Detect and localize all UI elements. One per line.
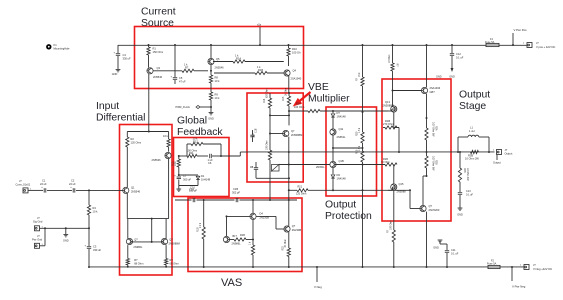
svg-text:10 Ohm 2W: 10 Ohm 2W <box>466 168 468 181</box>
resistor R22 47 Ohm <box>287 248 290 257</box>
resistor R15b 15k <box>361 77 364 86</box>
svg-text:330 uF: 330 uF <box>93 248 101 252</box>
svg-text:Output: Output <box>325 200 356 211</box>
resistor R19 <box>362 148 364 151</box>
resistor R24 10 Ohm <box>392 44 394 46</box>
svg-text:2N230B: 2N230B <box>292 228 302 232</box>
svg-text:C6: C6 <box>208 161 212 165</box>
svg-text:Q13: Q13 <box>385 100 390 104</box>
connector J input <box>23 188 28 193</box>
svg-text:R1B: R1B <box>258 68 263 72</box>
svg-text:22 uF: 22 uF <box>40 182 47 186</box>
svg-text:Conn_01x01: Conn_01x01 <box>16 182 31 186</box>
svg-text:2.2 k: 2.2 k <box>200 222 202 228</box>
svg-text:Multiplier: Multiplier <box>308 94 350 105</box>
resistor R23 1k <box>251 245 254 255</box>
wire d4 emitter <box>252 240 254 246</box>
wire input line <box>28 189 43 191</box>
svg-text:C3: C3 <box>93 245 97 249</box>
svg-text:D9: D9 <box>337 173 341 177</box>
transistor Q4 2SA <box>284 70 290 76</box>
transistor Q14 2SA1943 <box>421 87 427 93</box>
transistor Q6 2N5088M <box>161 238 167 244</box>
svg-text:V Pwr Pos: V Pwr Pos <box>514 28 528 32</box>
svg-text:2SC5200: 2SC5200 <box>429 208 440 212</box>
wire q11 node link <box>333 147 363 149</box>
svg-text:10 k: 10 k <box>215 79 221 83</box>
wire Q2-Q6 base link <box>131 241 164 243</box>
wire Q6 collector <box>165 219 167 239</box>
transistor Q13 2N5088M driver <box>391 106 397 112</box>
svg-text:C5: C5 <box>179 76 183 80</box>
resistor R1B 1k <box>255 71 267 74</box>
svg-text:C1A: C1A <box>189 188 194 192</box>
svg-text:C11: C11 <box>451 248 456 252</box>
transistor Q11 2N651L <box>330 129 336 135</box>
capacitor C11 0.1uF with ground <box>446 266 448 268</box>
svg-text:R13: R13 <box>172 161 175 166</box>
svg-text:R2: R2 <box>131 137 135 141</box>
capacitor C12 0.1uF with earth <box>451 44 453 46</box>
connector J pwr gnd 1 <box>35 226 40 231</box>
logo K1 MountingHole <box>46 44 51 49</box>
svg-text:150 Ohm: 150 Ohm <box>153 50 164 54</box>
svg-text:Output: Output <box>493 161 501 165</box>
resistor R12 10k feedback top <box>186 144 188 156</box>
svg-text:R1B: R1B <box>240 234 245 237</box>
svg-text:Input: Input <box>96 101 119 112</box>
resistor R10 100 Ohm <box>288 44 290 46</box>
svg-text:GND: GND <box>63 240 69 243</box>
wire q11 emitter <box>332 135 334 161</box>
svg-text:GB?: GB? <box>430 90 436 94</box>
svg-text:10 k: 10 k <box>163 134 169 138</box>
svg-text:VBE: VBE <box>308 82 329 93</box>
svg-text:Output: Output <box>459 90 490 101</box>
svg-text:2N651L: 2N651L <box>316 166 325 169</box>
resistor RV2 1k <box>288 92 290 94</box>
svg-text:GND: GND <box>208 118 214 121</box>
diode D7 1N4148 <box>332 110 334 112</box>
capacitor C10 150pF <box>192 198 194 202</box>
svg-text:Q1: Q1 <box>131 186 135 190</box>
wire feedback out <box>222 155 241 157</box>
resistor R25 100 Ohm <box>392 230 395 242</box>
wire rail drop x362 <box>362 44 364 46</box>
svg-text:V Pwr Neg: V Pwr Neg <box>512 285 526 289</box>
svg-text:Sig Gnd: Sig Gnd <box>33 220 43 224</box>
ground feedback <box>178 186 180 189</box>
svg-text:68 Ohm: 68 Ohm <box>134 262 143 266</box>
wire Q2 collector <box>127 219 129 239</box>
svg-text:D4: D4 <box>260 212 264 216</box>
svg-text:R12: R12 <box>193 140 198 144</box>
capacitor C2 22uF <box>72 188 74 192</box>
wire Q5 base row <box>213 61 233 63</box>
svg-text:1.5 k: 1.5 k <box>359 127 361 133</box>
svg-text:100 Oh: 100 Oh <box>292 51 301 55</box>
svg-text:C1B: C1B <box>233 187 238 191</box>
svg-text:2N986L: 2N986L <box>133 245 143 249</box>
svg-text:R15: R15 <box>283 96 285 101</box>
wire vbe base col <box>269 115 271 133</box>
wire vas base row <box>227 215 250 217</box>
svg-text:R14: R14 <box>264 98 266 103</box>
svg-text:R22: R22 <box>283 246 285 251</box>
svg-text:R9: R9 <box>215 93 219 97</box>
wire shunt bottom link <box>179 185 198 187</box>
transistor Q1 2N5546 input <box>123 187 129 193</box>
svg-text:R21: R21 <box>298 186 303 189</box>
wire q14 emitter <box>426 94 428 128</box>
wire q14 base stub <box>393 90 422 92</box>
svg-text:120 Ohm: 120 Ohm <box>296 193 306 196</box>
wire Q5 collector <box>210 44 212 46</box>
capacitor C3 330uF <box>88 228 90 246</box>
svg-text:2N5546: 2N5546 <box>152 158 162 162</box>
resistor R1B 2.2k vas load <box>203 200 205 227</box>
svg-text:70 Ohm: 70 Ohm <box>381 161 390 164</box>
node shunt bottom <box>178 174 180 176</box>
transistor Q2 2N986L <box>126 238 132 244</box>
svg-text:R?: R? <box>134 258 138 262</box>
capacitor C1B 302pF <box>235 198 237 202</box>
svg-text:GND: GND <box>436 76 442 79</box>
wire Q5 emitter to R8 <box>210 65 212 75</box>
node input junction <box>88 189 90 191</box>
wire q8 collector up <box>226 216 228 236</box>
node V Pwr Pos <box>512 33 514 45</box>
svg-text:R1: R1 <box>153 47 157 51</box>
svg-text:GND: GND <box>449 76 455 79</box>
net stub V2a on current source box top <box>259 27 261 45</box>
resistor R5 68 Ohm <box>127 245 129 258</box>
transistor Q cascode 2N5546 <box>165 152 171 158</box>
svg-text:R7: R7 <box>185 66 189 70</box>
capacitor C9 <box>254 167 258 169</box>
resistor R8 10k <box>209 75 212 83</box>
svg-text:2N5546: 2N5546 <box>215 66 225 70</box>
svg-text:302 pF: 302 pF <box>232 191 240 195</box>
resistor R7 1k <box>182 69 194 72</box>
capacitor C1 22uF <box>43 188 45 192</box>
svg-text:D?: D? <box>337 111 341 115</box>
svg-text:R2A: R2A <box>435 126 438 131</box>
svg-text:C1B: C1B <box>256 128 258 133</box>
svg-text:R11: R11 <box>189 151 194 155</box>
fuse F2 <box>488 265 500 268</box>
svg-text:270 Ohm: 270 Ohm <box>383 122 394 126</box>
svg-text:1 uH: 1 uH <box>469 129 475 133</box>
resistor R21 120 Ohm <box>297 189 308 192</box>
wire Q4 base row <box>214 72 255 74</box>
svg-text:47 Ohm: 47 Ohm <box>285 239 287 247</box>
svg-text:Q5: Q5 <box>216 57 220 61</box>
svg-text:10 k: 10 k <box>215 96 221 100</box>
svg-text:2N5088M: 2N5088M <box>383 104 394 108</box>
svg-text:Fuse 5A: Fuse 5A <box>485 41 495 44</box>
transistor Q15 driver <box>391 184 397 190</box>
svg-text:0.1 uF: 0.1 uF <box>456 56 464 60</box>
svg-text:Fuse 5A: Fuse 5A <box>487 263 497 266</box>
transistor Q3 2N5546 <box>147 68 153 74</box>
connector J output <box>497 150 502 155</box>
svg-text:330 uF: 330 uF <box>123 57 131 61</box>
wire top V+ rail <box>118 44 486 46</box>
ground under current source <box>210 107 212 112</box>
wire vbe link <box>270 114 289 116</box>
zobel branch <box>459 151 461 153</box>
svg-text:Global: Global <box>177 116 207 127</box>
svg-text:2N5088M: 2N5088M <box>291 133 302 137</box>
annotation box: Global Feedback <box>174 138 230 197</box>
svg-text:GND: GND <box>433 247 439 250</box>
svg-text:10 Ohm 2W: 10 Ohm 2W <box>465 157 479 161</box>
wire base drive row <box>289 110 308 112</box>
resistor RV 620 Ohm <box>269 93 271 98</box>
svg-text:2N5088M: 2N5088M <box>169 242 180 246</box>
node output junction <box>426 151 428 153</box>
svg-text:1N4148: 1N4148 <box>201 178 211 182</box>
svg-text:C4: C4 <box>123 53 127 57</box>
transistor Q8 2N986L vas <box>223 236 229 242</box>
capacitor C8 47n <box>269 134 271 151</box>
transistor Q7 2N5088M <box>283 130 289 136</box>
wire Q3 collector down to diff pair <box>148 74 150 132</box>
svg-text:100 Ohm: 100 Ohm <box>294 106 304 109</box>
svg-text:Stage: Stage <box>459 101 486 112</box>
node feedback left <box>178 155 180 157</box>
wire q13 base <box>388 110 392 112</box>
svg-text:Q11: Q11 <box>339 127 344 131</box>
svg-text:300 uF: 300 uF <box>183 178 191 182</box>
resistor R1 150 Ohm <box>148 44 150 46</box>
svg-text:Q4: Q4 <box>293 69 297 73</box>
svg-text:Q1B: Q1B <box>339 159 344 163</box>
svg-text:2N5546: 2N5546 <box>153 75 163 79</box>
connector J V neg <box>524 265 529 270</box>
resistor R1B 270 Ohm <box>385 126 397 129</box>
transistor D4 2N230B vas <box>250 213 256 219</box>
svg-text:2N651L: 2N651L <box>337 135 347 139</box>
svg-text:100 Ohm: 100 Ohm <box>267 140 269 150</box>
resistor R16 100 Ohm <box>308 109 320 112</box>
svg-text:Protection: Protection <box>325 211 372 222</box>
svg-text:C1: C1 <box>42 179 46 183</box>
svg-text:K1: K1 <box>54 43 58 47</box>
wire q13 emitter chain <box>393 112 395 127</box>
diode D9 1N4148 <box>332 168 334 174</box>
net label Output <box>496 155 498 160</box>
svg-text:MountingHole: MountingHole <box>54 47 71 51</box>
svg-text:Current: Current <box>141 7 176 18</box>
svg-text:Q?: Q? <box>169 238 173 242</box>
svg-text:V pos + 42V DC: V pos + 42V DC <box>536 45 555 49</box>
svg-text:C12: C12 <box>456 52 461 56</box>
svg-text:1k Ohm: 1k Ohm <box>286 88 288 96</box>
annotation box: VBE Multiplier <box>247 93 303 182</box>
node V Pwr Neg <box>511 267 513 281</box>
capacitor C6 1uF <box>209 154 211 158</box>
connector J pwr gnd 2 <box>35 243 40 248</box>
capacitor C5 47uF <box>174 44 176 46</box>
svg-text:Source: Source <box>141 18 174 29</box>
svg-text:Pwr Gnd: Pwr Gnd <box>32 238 43 242</box>
resistor R9 10k <box>209 92 212 100</box>
svg-text:0.27 Ohm 5W: 0.27 Ohm 5W <box>432 156 434 171</box>
svg-text:V Neg +42V DC: V Neg +42V DC <box>533 267 552 271</box>
svg-text:1N4148: 1N4148 <box>337 177 347 181</box>
resistor R1C 70 Ohm <box>385 163 397 166</box>
wire Q4 emitter to VBE <box>288 76 290 93</box>
wire q16 emitter to rail <box>426 212 428 267</box>
fuse F1 <box>486 43 499 46</box>
wire vbe col to vas <box>269 178 271 200</box>
annotation box: Output Stage <box>382 79 451 221</box>
svg-text:R?: R? <box>170 258 174 262</box>
svg-text:Q?: Q? <box>134 238 138 242</box>
svg-text:2SA1940: 2SA1940 <box>291 77 302 81</box>
resistor R1A 1k <box>233 60 245 63</box>
resistor R20 <box>361 132 364 143</box>
svg-text:1N4148: 1N4148 <box>337 115 347 119</box>
svg-text:VAS: VAS <box>221 277 242 289</box>
svg-text:C2: C2 <box>71 179 75 183</box>
wire vbe node row <box>280 164 331 166</box>
svg-text:Q15: Q15 <box>399 182 404 186</box>
annotation box: Input Differential <box>120 125 173 276</box>
svg-text:Output: Output <box>505 152 513 156</box>
wire protect row <box>289 189 297 191</box>
resistor R2 120 Ohm left load <box>126 132 128 138</box>
resistor R3B 10 Ohm 2W <box>471 150 479 153</box>
svg-text:R20: R20 <box>357 131 359 136</box>
wire q14 collector <box>426 44 428 46</box>
svg-text:Differential: Differential <box>96 113 145 124</box>
svg-text:Q3: Q3 <box>157 66 161 70</box>
capacitor C7 300uF <box>178 175 180 176</box>
svg-text:R4: R4 <box>93 206 97 210</box>
wire Q1 emitter down <box>126 194 128 219</box>
wire q9 emitter <box>288 232 290 248</box>
wire q15 base <box>388 189 393 191</box>
ground at input <box>65 227 67 229</box>
resistor R2A 0.27 Ohm <box>425 128 428 140</box>
transistor Q16 2SC5200 <box>420 205 426 211</box>
resistor R1B2 vas <box>234 238 246 241</box>
resistor R6 68 Ohm <box>165 245 167 258</box>
svg-text:2N5546: 2N5546 <box>131 190 141 194</box>
capacitor C4 330uF with ground <box>117 45 119 53</box>
transistor Q1B <box>330 161 336 167</box>
svg-text:R2B: R2B <box>463 168 465 173</box>
svg-text:R8: R8 <box>215 76 219 80</box>
svg-text:Feedback: Feedback <box>177 127 223 138</box>
svg-text:10 Ohm: 10 Ohm <box>389 55 391 63</box>
svg-text:GND: GND <box>457 214 463 217</box>
resistor R13 10k shunt <box>178 156 180 159</box>
svg-text:GND: GND <box>112 73 118 76</box>
annotation box: Current Source <box>135 27 304 89</box>
wire bottom V- rail <box>89 266 488 268</box>
svg-text:V Neg: V Neg <box>314 285 322 289</box>
svg-text:2N986L: 2N986L <box>232 242 242 246</box>
svg-text:1B: 1B <box>250 166 253 169</box>
svg-text:2SA1943: 2SA1943 <box>430 86 441 90</box>
annotation box: VAS <box>188 198 302 272</box>
node junction R4/C3 <box>88 227 90 229</box>
svg-text:Q7: Q7 <box>291 129 295 133</box>
svg-text:120 Ohm: 120 Ohm <box>131 141 142 145</box>
svg-text:0.1 uF: 0.1 uF <box>451 252 459 256</box>
svg-text:620 Ohm: 620 Ohm <box>267 88 269 98</box>
wire tail down <box>151 219 153 242</box>
resistor R17 100 Ohm <box>268 150 271 160</box>
transistor Q9 2N230B <box>284 226 290 232</box>
wire q15 emitter down <box>393 190 395 230</box>
svg-text:0.27 Ohm 5W: 0.27 Ohm 5W <box>432 122 434 137</box>
svg-text:D1: D1 <box>201 174 205 178</box>
resistor R11 100 Ohm <box>179 155 187 157</box>
resistor R4 10k bias <box>88 190 90 205</box>
resistor R2B 0.27 Ohm <box>426 152 428 156</box>
svg-text:1.5 k: 1.5 k <box>359 145 361 151</box>
svg-text:R1A: R1A <box>236 57 241 61</box>
svg-text:47 uF: 47 uF <box>179 80 186 84</box>
svg-text:Q?: Q? <box>292 224 296 228</box>
inductor L1 1uH <box>457 137 459 152</box>
svg-text:68 Ohm: 68 Ohm <box>170 262 179 266</box>
wire mid bus <box>248 151 495 153</box>
wire to q16 <box>423 175 427 177</box>
wire q15 collector chain <box>393 165 395 184</box>
svg-text:100 Ohm: 100 Ohm <box>391 220 393 230</box>
wire vas top row <box>175 199 192 201</box>
svg-text:R1B: R1B <box>198 227 200 232</box>
svg-text:PWR_FLAG: PWR_FLAG <box>176 105 190 109</box>
red arrow to VBE multiplier box <box>299 92 310 101</box>
trimpot RV1 <box>272 165 280 172</box>
svg-text:R2B: R2B <box>435 160 437 165</box>
net label V Neg stub <box>316 267 318 282</box>
wire Q3 emitter row <box>153 70 182 72</box>
svg-text:10 k: 10 k <box>93 210 99 214</box>
wire vbe node row right <box>335 164 385 166</box>
resistor right load <box>168 132 170 140</box>
svg-text:R10: R10 <box>292 47 297 51</box>
wire output row right <box>457 151 459 153</box>
wire Q7 emitter down <box>288 137 290 200</box>
svg-text:22 uF: 22 uF <box>69 182 76 186</box>
svg-text:Q?: Q? <box>429 204 433 208</box>
wire diff pair top bus <box>127 131 168 133</box>
wire x362 lower <box>362 165 364 268</box>
diode D1 1N4148 <box>179 174 198 176</box>
svg-text:0.1 uF: 0.1 uF <box>466 194 474 197</box>
wire q16 base stub <box>410 208 420 210</box>
transistor Q5 <box>208 58 214 64</box>
connector J V pos <box>527 43 532 48</box>
svg-text:R19: R19 <box>357 149 359 154</box>
annotation box: Output Protection <box>326 107 377 196</box>
svg-text:v2a: v2a <box>257 24 262 27</box>
wire diff cross <box>127 218 168 220</box>
